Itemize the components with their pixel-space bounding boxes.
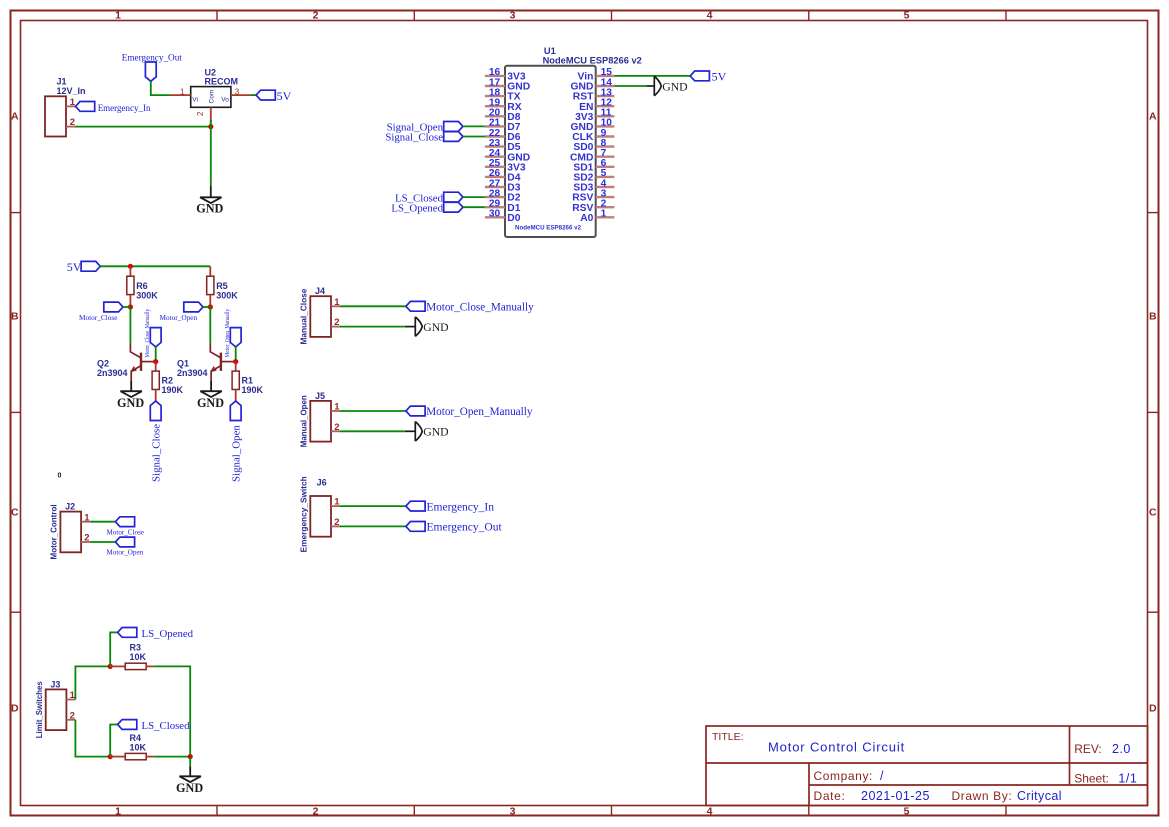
connector J2 <box>60 512 81 553</box>
U1 pin 25 (3V3) <box>485 166 505 168</box>
svg-text:Company:: Company: <box>814 769 874 783</box>
svg-text:D: D <box>11 703 19 715</box>
junction 5V rail at R6 <box>128 264 133 269</box>
U1 pin 8 (SD0) <box>596 145 615 147</box>
ground symbol below U2 <box>210 186 212 198</box>
svg-text:Manual_Open: Manual_Open <box>299 395 309 447</box>
wire LS_Opened to U1 D1 <box>463 206 485 208</box>
svg-text:J5: J5 <box>315 391 325 401</box>
U1 pin 20 (D8) <box>485 115 505 117</box>
net flag Signal_Open (below R1) <box>230 401 241 421</box>
svg-text:1: 1 <box>334 402 340 413</box>
svg-text:1: 1 <box>601 209 607 220</box>
net flag Emergency_In <box>76 102 95 112</box>
svg-text:R3: R3 <box>130 643 142 653</box>
svg-text:Motor_Close: Motor_Close <box>79 313 118 322</box>
svg-text:Motor_Open: Motor_Open <box>160 313 198 322</box>
wire 5V rail <box>100 265 210 267</box>
svg-text:Com: Com <box>209 90 216 104</box>
junction R3 left node <box>108 664 113 669</box>
svg-text:J2: J2 <box>65 502 75 512</box>
svg-text:Motor_Open_Manually: Motor_Open_Manually <box>224 308 231 357</box>
wire J5 pin1 to Motor_Open_Manually <box>340 410 406 412</box>
svg-text:0: 0 <box>58 473 62 480</box>
wire LS_Closed to U1 D2 <box>463 196 485 198</box>
svg-text:LS_Closed: LS_Closed <box>142 720 191 732</box>
svg-text:10K: 10K <box>130 652 147 662</box>
J6 pin 2 <box>331 525 340 527</box>
svg-text:Emergency_Switch: Emergency_Switch <box>299 476 309 552</box>
svg-text:NodeMCU ESP8266 v2: NodeMCU ESP8266 v2 <box>515 224 582 231</box>
svg-text:190K: 190K <box>162 385 184 395</box>
net flag Motor_Close_Manually (at J4) <box>406 301 425 311</box>
svg-text:Date:: Date: <box>814 789 846 803</box>
svg-text:1: 1 <box>84 512 90 523</box>
net flag LS_Closed <box>118 720 137 730</box>
net flag GND (at J4) <box>415 317 422 337</box>
U1 pin 28 (D2) <box>485 196 505 198</box>
ground symbol bottom <box>189 766 191 776</box>
J1 pin 1 <box>66 105 76 107</box>
svg-text:J6: J6 <box>317 478 327 488</box>
junction Q1 base node <box>233 359 238 364</box>
wire J3 pin2 down to R4 node <box>75 720 110 757</box>
IC U1 NodeMCU ESP8266 v2 <box>505 66 596 237</box>
transistor Q1 <box>210 344 235 381</box>
svg-text:1: 1 <box>180 88 185 97</box>
net flag LS_Opened <box>118 628 137 638</box>
svg-text:Vo: Vo <box>221 97 229 104</box>
junction R4 right node <box>188 754 193 759</box>
net flag GND (at J5) <box>415 422 422 442</box>
wire J4 pin2 to GND <box>340 326 405 328</box>
svg-text:GND: GND <box>176 781 203 795</box>
svg-text:4: 4 <box>707 10 713 22</box>
svg-text:1: 1 <box>334 497 340 508</box>
svg-text:REV:: REV: <box>1074 742 1102 756</box>
svg-text:Q1: Q1 <box>177 359 189 369</box>
U1 pin 9 (CLK) <box>596 135 615 137</box>
svg-text:J4: J4 <box>315 286 325 296</box>
svg-text:1/1: 1/1 <box>1118 771 1137 785</box>
wire U1 pin14 to GND flag <box>614 85 646 87</box>
U1 pin 3 (RSV) <box>596 196 615 198</box>
svg-text:GND: GND <box>423 426 448 439</box>
svg-text:GND: GND <box>117 396 144 410</box>
wire J3 pin1 up to R3 node <box>75 666 110 699</box>
connector J3 <box>46 689 67 730</box>
U1 pin 18 (TX) <box>485 95 505 97</box>
U1 pin 10 (GND) <box>596 125 615 127</box>
J5 pin 2 <box>331 430 340 432</box>
svg-text:A: A <box>11 111 19 123</box>
svg-text:2: 2 <box>334 317 339 328</box>
svg-text:J1: J1 <box>57 77 67 87</box>
net flag Signal_Close (below R2) <box>150 401 161 421</box>
svg-text:Motor_Open: Motor_Open <box>107 549 144 557</box>
svg-text:Emergency_In: Emergency_In <box>427 501 495 513</box>
resistor R4 <box>110 756 125 758</box>
wire Emergency_Out to U2 Vi <box>151 81 170 95</box>
svg-text:Motor_Open_Manually: Motor_Open_Manually <box>426 406 533 418</box>
svg-text:Q2: Q2 <box>97 359 109 369</box>
svg-text:R5: R5 <box>216 281 228 291</box>
svg-text:300K: 300K <box>216 290 238 300</box>
svg-text:2: 2 <box>84 533 89 544</box>
svg-text:5V: 5V <box>67 260 82 274</box>
J3 pin 1 <box>66 699 75 701</box>
transistor Q2 <box>130 344 155 381</box>
svg-text:1: 1 <box>115 10 121 22</box>
svg-text:B: B <box>11 311 19 323</box>
svg-text:10K: 10K <box>130 742 147 752</box>
junction at U2 Com node <box>208 124 213 129</box>
resistor R1 <box>235 362 237 372</box>
svg-text:2: 2 <box>196 111 205 116</box>
wire U1 Vin to 5V <box>614 75 690 77</box>
svg-text:3: 3 <box>510 10 516 22</box>
svg-text:RECOM: RECOM <box>205 77 239 87</box>
J5 pin 1 <box>331 410 340 412</box>
net flag GND (at U1 pin 14) <box>654 76 661 96</box>
svg-text:1: 1 <box>115 806 121 818</box>
J3 pin 2 <box>66 719 75 721</box>
net flag 5V (at U2) <box>256 90 275 100</box>
net flag LS_Closed (at U1 D2) <box>444 192 463 202</box>
svg-text:R1: R1 <box>242 375 254 385</box>
junction node Motor_Close (below R6) <box>128 304 133 309</box>
svg-text:Signal_Close: Signal_Close <box>385 132 443 144</box>
net flag Motor_Open (at R5) <box>184 302 203 312</box>
net flag LS_Opened (at U1 D1) <box>444 202 463 212</box>
net flag Signal_Close (at U1 D6) <box>444 132 463 142</box>
wire Q2 base node <box>155 347 157 362</box>
net flag Emergency_In (at J6) <box>406 501 425 511</box>
U1 pin 30 (D0) <box>485 216 505 218</box>
resistor R6 <box>129 266 131 276</box>
svg-text:R6: R6 <box>136 281 148 291</box>
net flag Emergency_Out (at J6) <box>406 522 425 532</box>
junction R4 left node <box>108 754 113 759</box>
svg-text:NodeMCU ESP8266 v2: NodeMCU ESP8266 v2 <box>543 55 642 65</box>
svg-text:Drawn By:: Drawn By: <box>952 789 1013 803</box>
wire J4 pin1 to Motor_Close_Manually <box>340 305 406 307</box>
U1 pin 5 (SD2) <box>596 176 615 178</box>
svg-text:GND: GND <box>662 80 687 93</box>
U1 pin 7 (CMD) <box>596 155 615 157</box>
wire net GND from J1 pin 2 <box>76 126 211 128</box>
svg-text:GND: GND <box>197 396 224 410</box>
wire stub to ground <box>189 757 191 767</box>
net flag Signal_Open (at U1 D7) <box>444 122 463 132</box>
svg-text:A: A <box>1149 111 1157 123</box>
svg-text:Motor_Close: Motor_Close <box>107 528 144 536</box>
U1 pin 23 (D5) <box>485 145 505 147</box>
svg-text:GND: GND <box>196 201 223 215</box>
U1 pin 12 (EN) <box>596 105 615 107</box>
J4 pin 2 <box>331 326 340 328</box>
svg-text:300K: 300K <box>136 290 158 300</box>
resistor R2 <box>155 362 157 372</box>
wire Signal_Close to U1 D6 <box>463 136 485 138</box>
svg-text:5: 5 <box>904 806 910 818</box>
U1 pin 24 (GND) <box>485 155 505 157</box>
U1 pin 27 (D3) <box>485 186 505 188</box>
U1 pin 13 (RST) <box>596 95 615 97</box>
svg-text:Motor_Control: Motor_Control <box>49 504 59 559</box>
wire Signal_Open to U1 D7 <box>463 125 485 127</box>
title block <box>706 726 1148 806</box>
U1 pin 19 (RX) <box>485 105 505 107</box>
J2 pin 2 <box>81 541 90 543</box>
svg-text:C: C <box>1149 507 1157 519</box>
U1 pin 22 (D6) <box>485 135 505 137</box>
ground symbol below Q1 <box>210 381 212 392</box>
svg-text:2: 2 <box>334 422 339 433</box>
net flag Motor_Close (at J2) <box>115 517 134 527</box>
wire J6 pin2 to Emergency_Out <box>340 525 406 527</box>
net flag Motor_Open (at J2) <box>115 537 134 547</box>
U1 pin 17 (GND) <box>485 85 505 87</box>
resistor R5 <box>209 266 211 276</box>
svg-text:Signal_Close: Signal_Close <box>150 424 162 482</box>
svg-text:R2: R2 <box>162 375 174 385</box>
svg-text:Signal_Open: Signal_Open <box>230 425 242 482</box>
net flag Motor_Close_Manually (at Q2 base) <box>150 328 161 347</box>
U1 pin 16 (3V3) <box>485 75 505 77</box>
U1 pin 2 (RSV) <box>596 206 615 208</box>
wire Q1 base node <box>235 347 237 362</box>
U1 pin 14 (GND) <box>596 85 615 87</box>
svg-text:30: 30 <box>489 209 501 220</box>
svg-text:190K: 190K <box>242 385 264 395</box>
svg-text:4: 4 <box>707 806 713 818</box>
net flag Motor_Open_Manually (at J5) <box>406 406 425 416</box>
J6 pin 1 <box>331 505 340 507</box>
svg-text:1: 1 <box>334 297 340 308</box>
U1 pin 26 (D4) <box>485 176 505 178</box>
junction node Motor_Open (below R5) <box>208 304 213 309</box>
svg-text:5V: 5V <box>712 69 727 83</box>
wire R4 right to ground junction <box>155 756 191 758</box>
svg-text:3: 3 <box>510 806 516 818</box>
wire J5 pin2 to GND <box>340 430 405 432</box>
svg-text:D: D <box>1149 703 1157 715</box>
svg-text:2n3904: 2n3904 <box>97 368 128 378</box>
svg-text:2: 2 <box>70 710 75 721</box>
svg-text:Emergency_Out: Emergency_Out <box>427 522 503 534</box>
connector J5 <box>310 401 331 442</box>
svg-text:C: C <box>11 507 19 519</box>
U1 pin 1 (A0) <box>596 216 615 218</box>
svg-text:2: 2 <box>334 517 339 528</box>
net flag Emergency_Out (top) <box>145 62 156 81</box>
junction Q2 base node <box>153 359 158 364</box>
net flag Motor_Close (at R6) <box>104 302 123 312</box>
svg-text:2: 2 <box>313 806 319 818</box>
wire to LS_Opened flag <box>110 632 117 666</box>
wire R5 to Q1 collector <box>209 307 211 344</box>
J1 pin 2 <box>66 126 76 128</box>
ground symbol below Q2 <box>130 381 132 392</box>
svg-text:J3: J3 <box>50 679 60 689</box>
U1 pin 15 (Vin) <box>596 75 615 77</box>
U1 pin 4 (SD3) <box>596 186 615 188</box>
wire J6 pin1 to Emergency_In <box>340 505 406 507</box>
svg-text:A0: A0 <box>580 213 593 224</box>
U1 pin 11 (3V3) <box>596 115 615 117</box>
svg-text:2021-01-25: 2021-01-25 <box>861 789 930 803</box>
svg-text:TITLE:: TITLE: <box>712 731 744 743</box>
wire R3 right to GND rail <box>155 666 191 756</box>
svg-text:Motor_Close_Manually: Motor_Close_Manually <box>144 308 151 357</box>
regulator U2 <box>191 87 231 108</box>
connector J6 <box>310 496 331 537</box>
connector J1 <box>45 96 66 136</box>
svg-text:3: 3 <box>235 88 240 97</box>
net flag 5V (at U1 Vin) <box>690 71 709 81</box>
svg-text:Manual_Close: Manual_Close <box>299 288 309 344</box>
svg-text:/: / <box>880 769 884 783</box>
svg-text:2: 2 <box>313 10 319 22</box>
svg-text:Motor_Close_Manually: Motor_Close_Manually <box>426 302 534 314</box>
wire to LS_Closed flag <box>110 725 117 757</box>
svg-text:Emergency_In: Emergency_In <box>98 103 151 113</box>
svg-text:2.0: 2.0 <box>1112 742 1131 756</box>
svg-text:R4: R4 <box>130 733 142 743</box>
wire J2 pin1 to Motor_Close <box>90 521 115 523</box>
svg-text:Emergency_Out: Emergency_Out <box>122 52 182 62</box>
svg-text:12V_In: 12V_In <box>57 86 86 96</box>
resistor R3 <box>110 665 125 667</box>
J4 pin 1 <box>331 305 340 307</box>
svg-text:2: 2 <box>70 117 75 128</box>
U1 pin 29 (D1) <box>485 206 505 208</box>
svg-text:D0: D0 <box>507 213 520 224</box>
svg-text:Sheet:: Sheet: <box>1074 771 1109 785</box>
svg-text:B: B <box>1149 311 1157 323</box>
J2 pin 1 <box>81 521 90 523</box>
svg-text:Vi: Vi <box>192 97 198 104</box>
svg-text:Critycal: Critycal <box>1017 789 1062 803</box>
svg-text:LS_Opened: LS_Opened <box>391 202 443 214</box>
wire U2 Vo to 5V flag <box>250 94 256 96</box>
svg-text:5: 5 <box>904 10 910 22</box>
svg-text:5V: 5V <box>277 89 292 103</box>
net flag 5V (rail) <box>81 261 100 271</box>
connector J4 <box>310 296 331 337</box>
svg-text:LS_Opened: LS_Opened <box>142 628 194 640</box>
wire J2 pin2 to Motor_Open <box>90 541 115 543</box>
svg-text:GND: GND <box>423 321 448 334</box>
wire U2 Com down to ground <box>210 120 212 127</box>
svg-text:2n3904: 2n3904 <box>177 368 208 378</box>
net flag Motor_Open_Manually (at Q1 base) <box>230 328 241 347</box>
svg-text:Motor Control Circuit: Motor Control Circuit <box>768 740 905 755</box>
wire R6 to Q2 collector <box>129 307 131 344</box>
svg-text:Limit_Switches: Limit_Switches <box>34 681 44 738</box>
U1 pin 6 (SD1) <box>596 166 615 168</box>
U1 pin 21 (D7) <box>485 125 505 127</box>
